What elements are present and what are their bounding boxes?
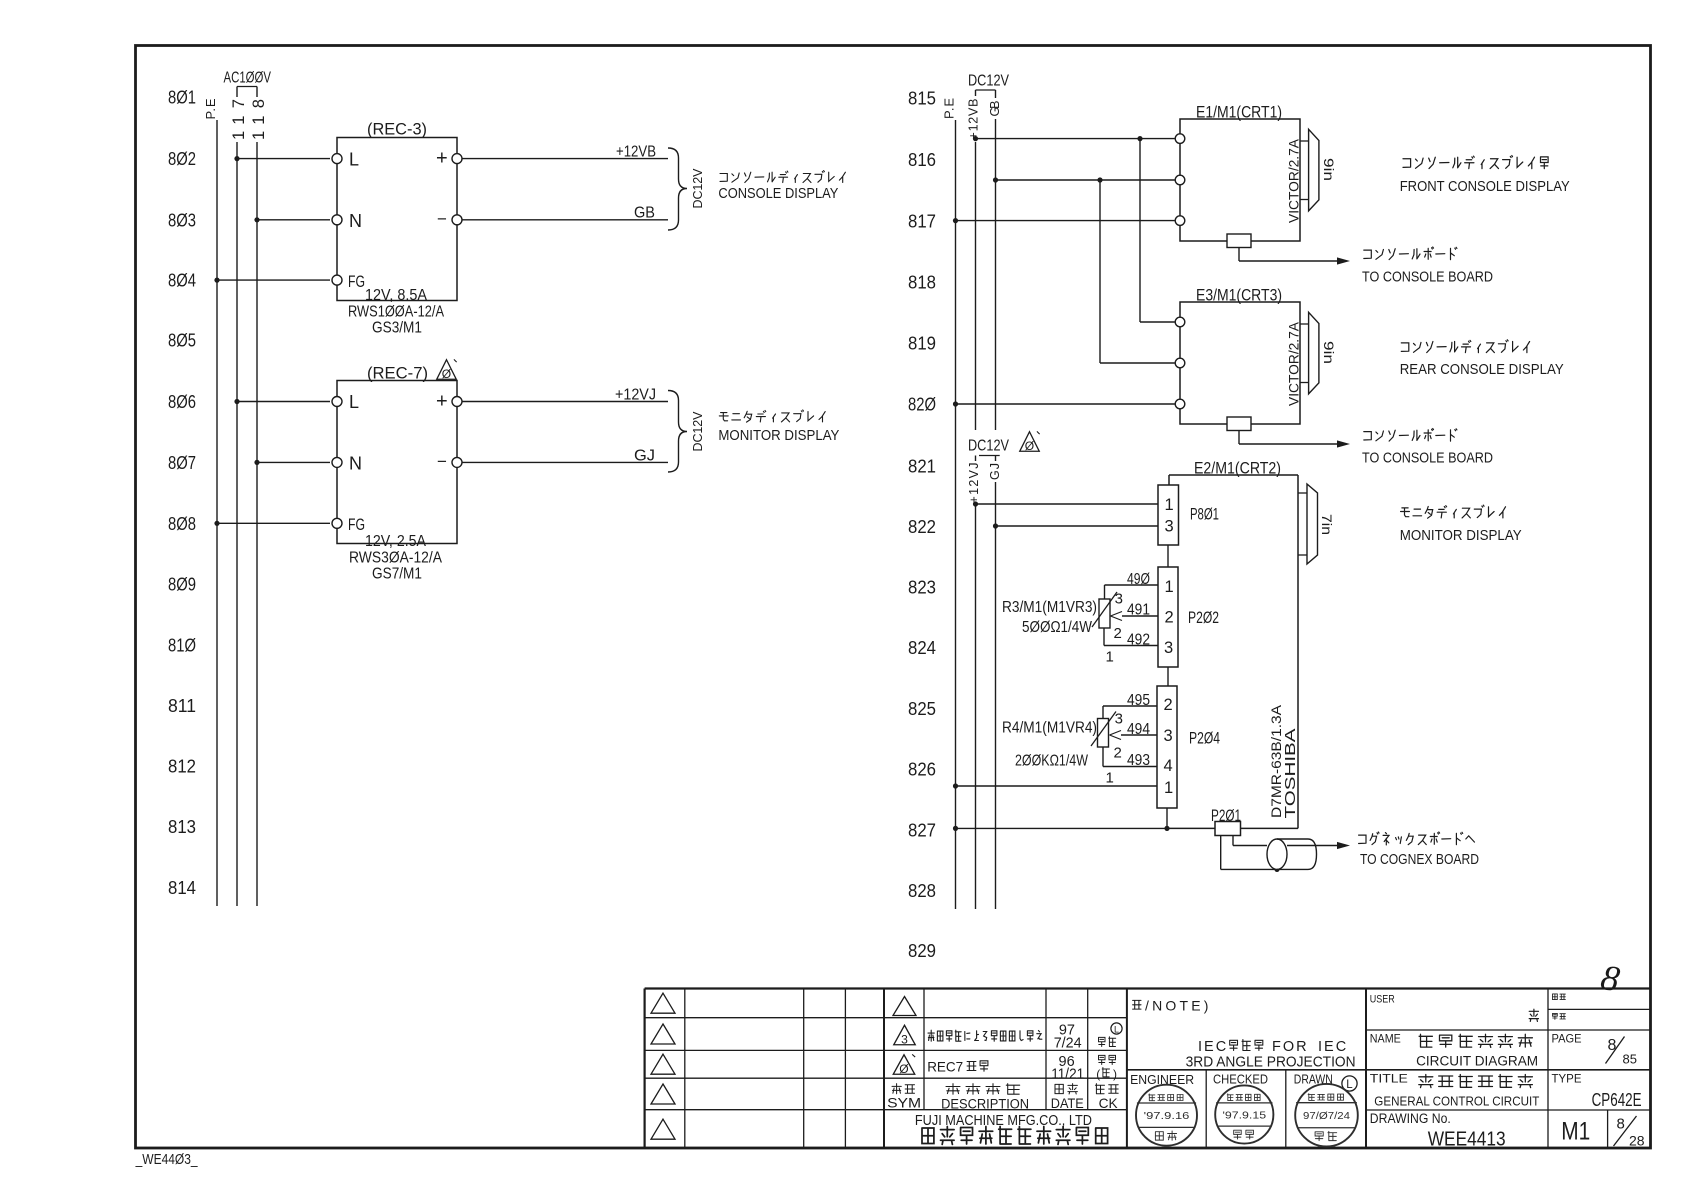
svg-text:N: N	[349, 454, 362, 474]
svg-text:D7MR-63B/1.3A: D7MR-63B/1.3A	[1268, 704, 1284, 818]
connector to console board E1	[1227, 234, 1350, 265]
sheet M1 cell	[1561, 1118, 1590, 1146]
wire branch +12VB to E3 pin1	[1140, 139, 1175, 322]
svg-text:GB: GB	[634, 205, 655, 222]
svg-text:12V, 8.5A: 12V, 8.5A	[365, 287, 427, 304]
svg-text:8Ø7: 8Ø7	[168, 453, 196, 473]
svg-text:FG: FG	[348, 516, 365, 534]
svg-text:+12VB: +12VB	[966, 99, 980, 140]
svg-text:DESCRIPTION: DESCRIPTION	[941, 1097, 1029, 1112]
node 829	[908, 941, 936, 961]
wire 815 +12VB to E1 pin1	[973, 136, 1175, 141]
revision triangle 3	[894, 1025, 916, 1046]
node 818	[908, 273, 936, 293]
svg-text:2: 2	[1165, 609, 1174, 627]
svg-text:REC7: REC7	[927, 1059, 963, 1075]
svg-text:3: 3	[1164, 639, 1173, 657]
svg-text:FOR: FOR	[1272, 1039, 1309, 1055]
wire P202 to P204	[1167, 667, 1169, 686]
company name	[915, 1113, 1108, 1144]
svg-text:L: L	[349, 149, 359, 169]
svg-text:VICTOR/2.7A: VICTOR/2.7A	[1285, 321, 1301, 406]
label to console board 2 (jp)	[1362, 429, 1493, 467]
wire GJ	[462, 448, 668, 465]
connector 7in E2	[1298, 484, 1335, 564]
svg-text:WEE4413: WEE4413	[1428, 1128, 1506, 1151]
svg-text:GB: GB	[988, 101, 1002, 117]
svg-text:3: 3	[1164, 727, 1173, 745]
svg-text:MONITOR DISPLAY: MONITOR DISPLAY	[718, 427, 839, 444]
svg-text:CHECKED: CHECKED	[1213, 1072, 1268, 1087]
svg-text:495: 495	[1127, 692, 1150, 709]
svg-text:822: 822	[908, 517, 936, 537]
drawing no cell	[1370, 1111, 1506, 1151]
label front console display (jp)	[1400, 156, 1570, 196]
svg-text:491: 491	[1127, 602, 1150, 619]
revision triangle blank L3	[651, 1054, 675, 1074]
svg-text:): )	[1113, 1067, 1117, 1081]
connector P201	[1211, 807, 1241, 836]
power rail 118	[250, 87, 268, 907]
title block grid	[645, 989, 1650, 1149]
svg-text:E3/M1(CRT3): E3/M1(CRT3)	[1196, 287, 1282, 305]
connector P801	[1158, 485, 1219, 545]
rectifier REC-3 (RWS100A-12/A GS3/M1)	[332, 120, 462, 337]
revision row 3 text	[928, 1023, 1122, 1052]
node 817	[908, 212, 936, 232]
wire 808 FG	[214, 521, 330, 526]
svg-text:7/24: 7/24	[1054, 1036, 1082, 1052]
svg-text:E1/M1(CRT1): E1/M1(CRT1)	[1196, 104, 1282, 122]
svg-text:−: −	[437, 210, 447, 229]
svg-text:/NOTE): /NOTE)	[1145, 998, 1212, 1014]
svg-text:815: 815	[908, 89, 936, 109]
wire P204 to node 827	[1164, 808, 1169, 831]
node 809	[168, 575, 196, 595]
bun-ban / sei-ban cells	[1553, 994, 1566, 1020]
connector 9in E1	[1300, 129, 1337, 211]
wire 492 R3 pin1 to P202 pin3	[1104, 628, 1158, 666]
wire branch GB to E3 pin2	[1100, 180, 1175, 363]
node 825	[908, 699, 936, 719]
checked stamp	[1215, 1085, 1273, 1143]
title cell	[1370, 1073, 1540, 1108]
node 814	[168, 878, 196, 898]
svg-text:Ø: Ø	[899, 1062, 908, 1076]
svg-text:117: 117	[230, 99, 248, 140]
CRT display E2/M1(CRT2)	[1169, 460, 1299, 829]
svg-text:CONSOLE DISPLAY: CONSOLE DISPLAY	[718, 185, 838, 202]
svg-text:817: 817	[908, 212, 936, 232]
svg-text:85: 85	[1623, 1052, 1637, 1067]
svg-text:816: 816	[908, 150, 936, 170]
power rail P.E (left)	[203, 98, 218, 906]
coax cable to cognex	[1233, 836, 1350, 870]
node 815	[908, 89, 936, 109]
svg-text:825: 825	[908, 699, 936, 719]
sheet 8/28 cell	[1614, 1116, 1645, 1149]
wire +12VJ to P801 pin1	[973, 501, 1158, 506]
svg-text:DC12V: DC12V	[968, 438, 1009, 455]
svg-text:+12VB: +12VB	[616, 144, 656, 161]
revision triangle 0 at REC-7	[437, 359, 457, 380]
svg-text:IEC: IEC	[1318, 1039, 1348, 1055]
svg-text:M1: M1	[1561, 1118, 1590, 1146]
wire 495 R4 pin3 to P204 pin2	[1103, 692, 1157, 728]
label to cognex board (jp)	[1359, 832, 1480, 868]
svg-text:1: 1	[1165, 578, 1174, 596]
wire 804 FG	[214, 278, 330, 283]
revision triangle blank L4	[651, 1084, 675, 1104]
svg-text:TITLE: TITLE	[1370, 1073, 1408, 1085]
svg-text:IEC: IEC	[1198, 1039, 1228, 1055]
svg-text:GJ: GJ	[988, 463, 1002, 480]
svg-text:2: 2	[1114, 745, 1122, 762]
svg-text:P8Ø1: P8Ø1	[1190, 505, 1219, 524]
svg-text:5ØØΩ1/4W: 5ØØΩ1/4W	[1022, 619, 1092, 636]
wire GB	[462, 205, 668, 222]
svg-text:2: 2	[1164, 696, 1173, 714]
wire 820 P.E to E3 pin3	[953, 401, 1175, 406]
svg-text:'97.9.16: '97.9.16	[1144, 1110, 1190, 1122]
node 811	[168, 696, 196, 716]
svg-text:826: 826	[908, 760, 936, 780]
svg-text:CK: CK	[1099, 1095, 1119, 1111]
svg-text:818: 818	[908, 273, 936, 293]
engineer stamp	[1136, 1085, 1197, 1146]
svg-text:+: +	[436, 148, 448, 170]
svg-text:USER: USER	[1370, 993, 1395, 1005]
svg-text:FRONT CONSOLE DISPLAY: FRONT CONSOLE DISPLAY	[1400, 178, 1570, 195]
svg-text:8Ø6: 8Ø6	[168, 392, 196, 412]
svg-text:12V, 2.5A: 12V, 2.5A	[365, 533, 426, 550]
node 806	[168, 392, 196, 412]
label to console board 1 (jp)	[1362, 247, 1493, 286]
svg-text:CIRCUIT DIAGRAM: CIRCUIT DIAGRAM	[1416, 1054, 1538, 1069]
sheet code _WE4403_	[135, 1151, 198, 1168]
svg-text:1: 1	[1106, 770, 1114, 787]
svg-text:FUJI MACHINE MFG.CO., LTD: FUJI MACHINE MFG.CO., LTD	[915, 1113, 1092, 1129]
svg-text:+12VJ: +12VJ	[615, 387, 656, 404]
name cell	[1370, 1033, 1538, 1068]
svg-text:L: L	[1346, 1079, 1353, 1091]
svg-text:3RD ANGLE PROJECTION: 3RD ANGLE PROJECTION	[1186, 1055, 1356, 1071]
connector 9in E3	[1300, 312, 1337, 394]
svg-text:8Ø4: 8Ø4	[168, 271, 196, 291]
svg-text:MONITOR DISPLAY: MONITOR DISPLAY	[1400, 527, 1522, 544]
svg-text:814: 814	[168, 878, 196, 898]
revision triangle 0 at DC12V	[1020, 431, 1040, 452]
wire GJ to P801 pin3	[993, 523, 1158, 528]
svg-text:3: 3	[1115, 591, 1123, 608]
svg-text:Ø: Ø	[1025, 439, 1034, 453]
svg-text:493: 493	[1127, 752, 1150, 769]
label console display (jp)	[718, 171, 845, 202]
node 813	[168, 817, 196, 837]
svg-text:CP642E: CP642E	[1592, 1090, 1642, 1110]
svg-text:(REC-3): (REC-3)	[367, 120, 427, 139]
svg-text:AC1ØØV: AC1ØØV	[224, 70, 272, 87]
node 812	[168, 757, 196, 777]
svg-text:7in: 7in	[1319, 514, 1335, 535]
wire 803 N	[254, 217, 330, 222]
svg-text:Ø: Ø	[442, 367, 451, 381]
revision triangle blank L5	[651, 1119, 675, 1139]
svg-text:GJ: GJ	[634, 448, 655, 465]
svg-text:8Ø1: 8Ø1	[168, 88, 196, 108]
svg-text:8Ø5: 8Ø5	[168, 331, 196, 351]
wire 817 P.E to E1 pin3	[953, 218, 1175, 223]
node 801	[168, 88, 196, 108]
svg-text:RWS3ØA-12/A: RWS3ØA-12/A	[349, 550, 442, 567]
revision triangle blank L2	[651, 1024, 675, 1044]
svg-text:81Ø: 81Ø	[168, 636, 196, 656]
wire +12VB	[462, 144, 668, 161]
brace DC12V monitor display	[668, 391, 705, 473]
svg-text:8Ø9: 8Ø9	[168, 575, 196, 595]
svg-text:SYM: SYM	[887, 1095, 921, 1111]
svg-text:TO COGNEX BOARD: TO COGNEX BOARD	[1360, 851, 1479, 868]
svg-text:2ØØKΩ1/4W: 2ØØKΩ1/4W	[1015, 753, 1088, 770]
node 824	[908, 638, 936, 658]
node 828	[908, 881, 936, 901]
handwritten mark 8	[1598, 957, 1623, 1000]
connector P204	[1157, 686, 1220, 808]
revision triangle blank L1	[651, 993, 675, 1013]
svg-text:FG: FG	[348, 273, 365, 291]
wire 827 P.E	[953, 826, 1169, 831]
node 826	[908, 760, 936, 780]
svg-text:8Ø2: 8Ø2	[168, 149, 196, 169]
svg-text:DATE: DATE	[1051, 1095, 1084, 1111]
node 805	[168, 331, 196, 351]
svg-text:TYPE: TYPE	[1552, 1073, 1582, 1085]
svg-text:DRAWING No.: DRAWING No.	[1370, 1111, 1451, 1126]
wire +12VJ	[462, 387, 668, 404]
svg-text:DC12V: DC12V	[691, 168, 705, 209]
svg-text:3: 3	[1115, 711, 1123, 728]
svg-text:TO CONSOLE BOARD: TO CONSOLE BOARD	[1362, 450, 1493, 467]
svg-text:494: 494	[1127, 721, 1150, 738]
svg-text:1: 1	[1106, 649, 1114, 666]
svg-text:R4/M1(M1VR4): R4/M1(M1VR4)	[1002, 720, 1097, 737]
svg-text:813: 813	[168, 817, 196, 837]
svg-text:DC12V: DC12V	[691, 411, 705, 452]
svg-text:+12VJ: +12VJ	[967, 463, 981, 504]
svg-text:RWS1ØØA-12/A: RWS1ØØA-12/A	[348, 304, 444, 321]
svg-text:−: −	[437, 452, 447, 471]
svg-text:1: 1	[1164, 779, 1173, 797]
wire 806 L	[234, 399, 330, 404]
power rail 117	[230, 87, 248, 907]
node 804	[168, 271, 196, 291]
node 823	[908, 578, 936, 598]
svg-text:P.E: P.E	[942, 98, 957, 119]
wire P801 to P202	[1167, 545, 1169, 567]
svg-text:812: 812	[168, 757, 196, 777]
svg-text:TOSHIBA: TOSHIBA	[1283, 728, 1299, 818]
svg-text:97/Ø7/24: 97/Ø7/24	[1303, 1110, 1350, 1122]
note box	[1133, 998, 1356, 1071]
svg-text:28: 28	[1629, 1133, 1645, 1149]
svg-text:GS3/M1: GS3/M1	[372, 320, 422, 337]
svg-text:L: L	[349, 392, 359, 412]
node 820	[908, 395, 936, 415]
node 821	[908, 457, 936, 477]
CRT display E3/M1(CRT3)	[1175, 287, 1301, 425]
svg-text:1: 1	[1165, 496, 1174, 514]
revision row 0 text	[927, 1054, 1117, 1083]
svg-text:3: 3	[1165, 518, 1174, 536]
svg-text:REAR CONSOLE DISPLAY: REAR CONSOLE DISPLAY	[1400, 361, 1564, 378]
svg-text:NAME: NAME	[1370, 1033, 1401, 1045]
svg-text:2: 2	[1114, 625, 1122, 642]
svg-text:VICTOR/2.7A: VICTOR/2.7A	[1285, 138, 1301, 223]
wire P201 shield	[1221, 836, 1280, 873]
svg-text:'97.9.15: '97.9.15	[1222, 1109, 1266, 1121]
svg-text:9in: 9in	[1321, 341, 1337, 364]
label monitor display E2 (jp)	[1400, 505, 1522, 544]
connector P202	[1158, 567, 1219, 667]
resistor R3/M1 (M1VR3) 500ohm variable	[1002, 592, 1117, 636]
power rail +12VJ	[967, 456, 982, 910]
svg-text:827: 827	[908, 821, 936, 841]
user cell	[1370, 993, 1539, 1021]
wire 490 R3 pin3 to P202 pin1	[1105, 571, 1159, 608]
svg-text:N: N	[349, 211, 362, 231]
brace DC12V console display	[668, 148, 705, 230]
svg-text:49Ø: 49Ø	[1127, 571, 1150, 588]
net label DC12V (top)	[968, 73, 1009, 91]
node 802	[168, 149, 196, 169]
power rail +12VB	[966, 90, 982, 430]
svg-text:3: 3	[901, 1032, 908, 1046]
svg-text:_WE44Ø3_: _WE44Ø3_	[135, 1151, 198, 1168]
svg-text:492: 492	[1127, 632, 1150, 649]
node 827	[908, 821, 936, 841]
svg-text:DC12V: DC12V	[968, 73, 1009, 90]
svg-text:L: L	[1114, 1025, 1119, 1035]
svg-text:(: (	[1096, 1067, 1100, 1081]
svg-text:P2Ø4: P2Ø4	[1189, 729, 1220, 748]
svg-text:829: 829	[908, 941, 936, 961]
power rail GJ	[988, 456, 1002, 910]
wire 826 P.E to P204 pin1	[953, 783, 1157, 788]
svg-text:819: 819	[908, 334, 936, 354]
svg-text:R3/M1(M1VR3): R3/M1(M1VR3)	[1002, 599, 1097, 616]
connector to console board E3	[1227, 417, 1350, 448]
svg-text:8Ø8: 8Ø8	[168, 514, 196, 534]
svg-text:8: 8	[1608, 1037, 1617, 1054]
svg-text:TO CONSOLE BOARD: TO CONSOLE BOARD	[1362, 269, 1493, 286]
node 803	[168, 210, 196, 230]
wire GB to E1 pin2	[993, 177, 1175, 182]
revision triangle 0	[893, 1054, 915, 1075]
svg-text:824: 824	[908, 638, 936, 658]
svg-text:4: 4	[1164, 757, 1173, 775]
label monitor display (jp)	[718, 410, 839, 444]
node 822	[908, 517, 936, 537]
svg-text:P2Ø2: P2Ø2	[1188, 608, 1219, 627]
svg-text:+: +	[436, 390, 448, 412]
svg-text:8: 8	[1617, 1116, 1625, 1133]
type cell	[1552, 1073, 1642, 1110]
svg-text:11/21: 11/21	[1051, 1067, 1084, 1083]
svg-text:(REC-7): (REC-7)	[367, 364, 428, 383]
resistor R4/M1 (M1VR4) 200Kohm variable	[1002, 712, 1116, 770]
node 807	[168, 453, 196, 473]
svg-text:GS7/M1: GS7/M1	[372, 566, 422, 583]
net label AC100V	[224, 70, 272, 87]
power rail GB	[988, 90, 1002, 430]
wire 491 R3 wiper to P202 pin2	[1111, 602, 1159, 643]
net label DC12V (lower)	[968, 438, 1009, 456]
svg-text:118: 118	[250, 99, 268, 140]
svg-text:GENERAL CONTROL CIRCUIT: GENERAL CONTROL CIRCUIT	[1374, 1094, 1539, 1109]
svg-text:821: 821	[908, 457, 936, 477]
svg-text:P.E: P.E	[203, 98, 218, 119]
svg-text:9in: 9in	[1321, 158, 1337, 181]
svg-text:823: 823	[908, 578, 936, 598]
label rear console display (jp)	[1400, 340, 1564, 378]
node 810	[168, 636, 196, 656]
svg-text:811: 811	[168, 696, 196, 716]
revision table header	[887, 1084, 1118, 1112]
svg-text:PAGE: PAGE	[1552, 1033, 1582, 1045]
page cell	[1552, 1033, 1637, 1066]
svg-text:82Ø: 82Ø	[908, 395, 936, 415]
CRT display E1/M1(CRT1)	[1175, 104, 1301, 242]
node 808	[168, 514, 196, 534]
svg-text:8Ø3: 8Ø3	[168, 210, 196, 230]
svg-text:828: 828	[908, 881, 936, 901]
node 816	[908, 150, 936, 170]
power rail P.E (right)	[942, 98, 957, 909]
node 819	[908, 334, 936, 354]
drawn stamp	[1295, 1084, 1358, 1147]
wire 494 R4 wiper to P204 pin3	[1110, 721, 1158, 762]
wire 807 N	[254, 460, 330, 465]
rectifier REC-7 (RWS30A-12/A GS7/M1)	[332, 364, 462, 583]
revision triangle blank M1	[893, 997, 916, 1016]
approval row labels	[1130, 1072, 1357, 1092]
wire 802 L	[234, 156, 330, 161]
wire 493 R4 pin1 to P204 pin4	[1103, 747, 1157, 787]
